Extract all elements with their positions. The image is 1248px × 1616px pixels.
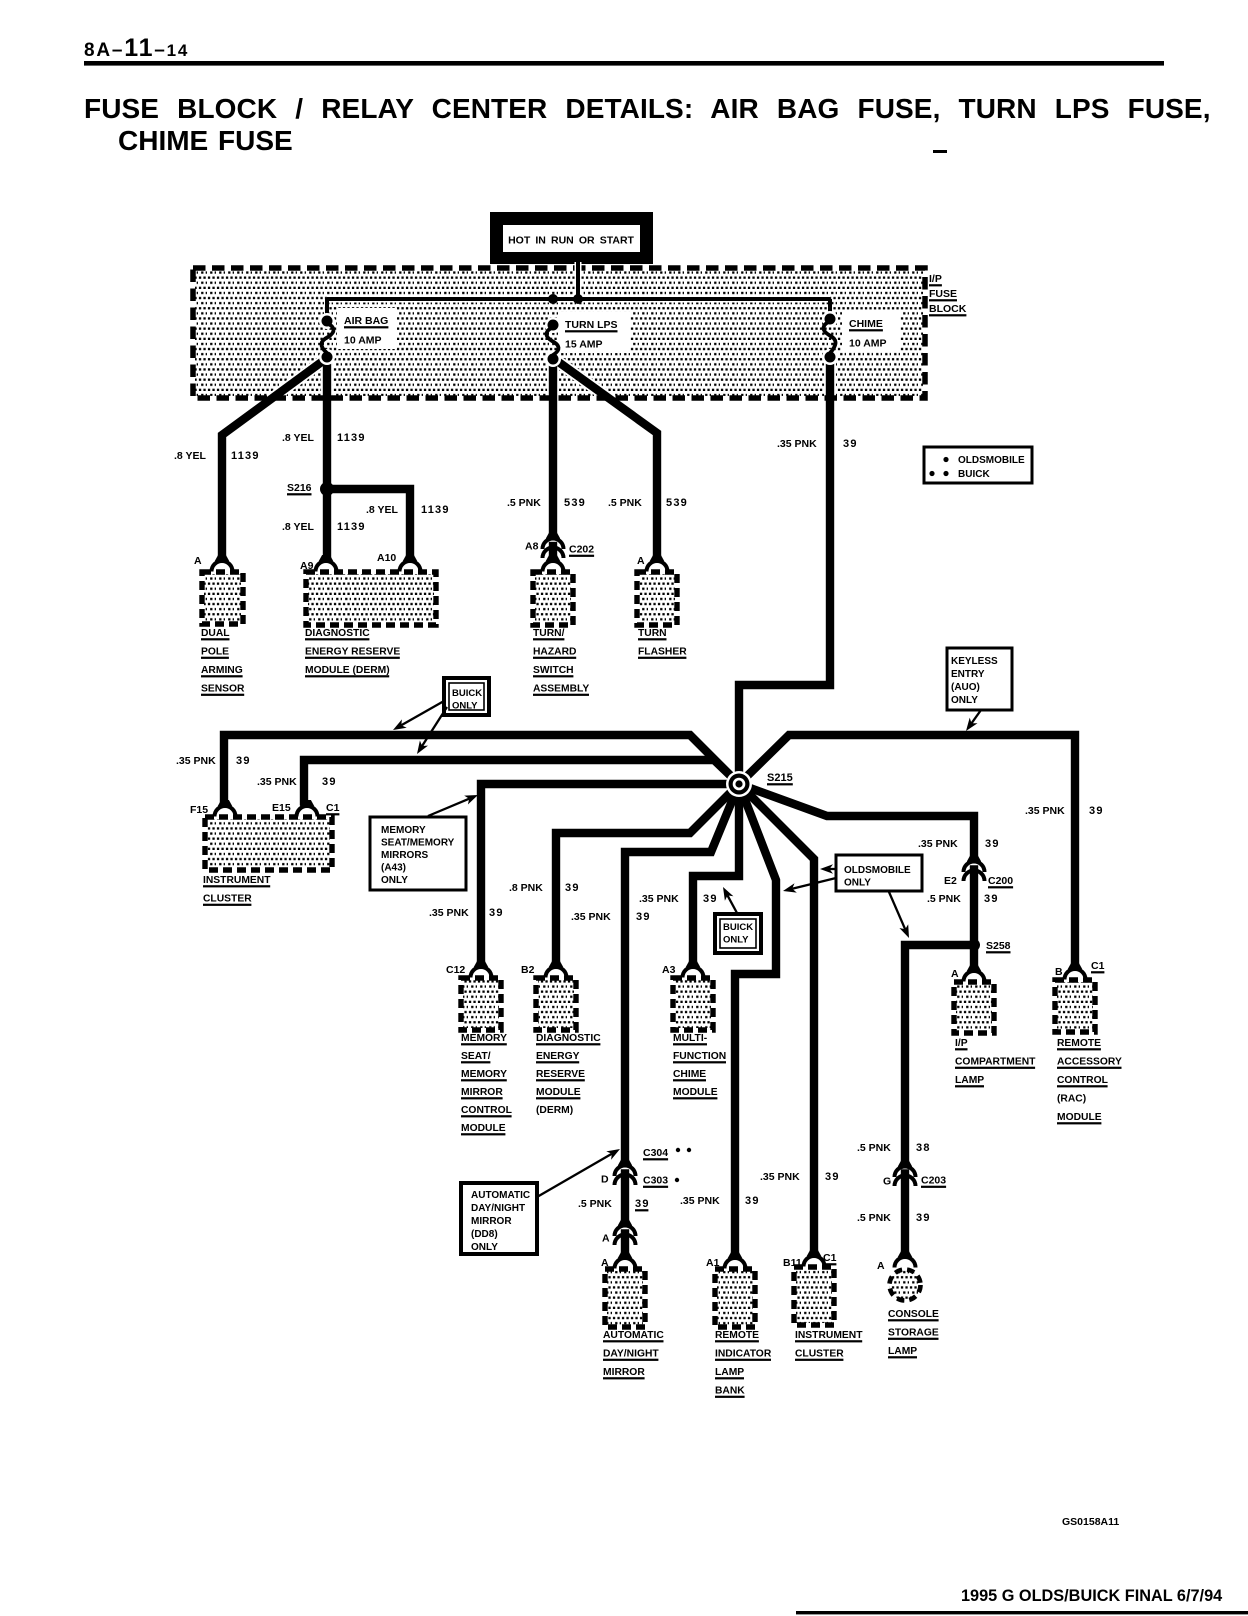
connector A3 — [662, 961, 704, 978]
wire .5 PNK 39 C303 to A connector — [621, 1174, 629, 1221]
svg-text:S215: S215 — [767, 772, 793, 784]
svg-text:.8 PNK: .8 PNK — [509, 882, 543, 894]
wire .8 PNK 39 S215 to DERM B2 — [556, 784, 739, 962]
console storage lamp — [888, 1270, 939, 1359]
svg-text:ENTRY: ENTRY — [951, 669, 985, 680]
svg-text:539: 539 — [564, 497, 586, 509]
svg-text:AUTOMATIC: AUTOMATIC — [471, 1190, 530, 1201]
fuse TURN LPS 15 AMP — [545, 312, 630, 367]
svg-text:AIR BAG: AIR BAG — [344, 315, 388, 327]
svg-text:BANK: BANK — [715, 1386, 745, 1397]
wire .35 PNK 39 S215 to multi-function chime module A3 — [693, 784, 739, 962]
svg-text:MIRRORS: MIRRORS — [381, 850, 429, 861]
svg-text:ONLY: ONLY — [381, 875, 408, 886]
fuse AIR BAG 10 AMP — [319, 308, 397, 365]
wire label .8 YEL 1139 — [282, 432, 366, 444]
svg-text:ONLY: ONLY — [951, 695, 978, 706]
svg-text:C1: C1 — [1091, 960, 1105, 972]
wire label .35 PNK 39 — [257, 776, 337, 788]
svg-text:FUSE BLOCK / RELAY CENTER DETA: FUSE BLOCK / RELAY CENTER DETAILS: AIR B… — [84, 93, 1211, 124]
inline connector D C303 — [601, 1160, 679, 1188]
wire label .8 YEL 1139 — [174, 450, 260, 462]
splice S215 hub — [726, 771, 793, 797]
svg-text:MULTI-: MULTI- — [673, 1033, 708, 1044]
svg-text:39: 39 — [745, 1195, 760, 1207]
svg-text:OLDSMOBILE: OLDSMOBILE — [844, 865, 911, 876]
svg-text:CHIME FUSE: CHIME FUSE — [118, 125, 293, 156]
svg-text:CONTROL: CONTROL — [461, 1105, 512, 1116]
svg-text:SEAT/MEMORY: SEAT/MEMORY — [381, 838, 455, 849]
wire label .35 PNK 39 — [176, 755, 251, 767]
connector A automatic day/night mirror — [601, 1252, 636, 1269]
wire label .35 PNK 39 — [1025, 805, 1104, 817]
svg-text:DAY/NIGHT: DAY/NIGHT — [603, 1349, 659, 1360]
title artifact mark — [933, 150, 947, 153]
connector A9 DERM — [300, 555, 337, 572]
svg-text:I/P: I/P — [929, 273, 942, 285]
svg-text:REMOTE: REMOTE — [715, 1330, 759, 1341]
svg-text:POLE: POLE — [201, 647, 229, 658]
svg-text:FUNCTION: FUNCTION — [673, 1051, 726, 1062]
connector A I/P compartment lamp — [951, 965, 985, 982]
diagnostic energy reserve module DERM — [305, 572, 436, 677]
svg-text:39: 39 — [916, 1212, 931, 1224]
svg-text:39: 39 — [985, 838, 1000, 850]
svg-text:.5 PNK: .5 PNK — [578, 1198, 612, 1210]
svg-text:(RAC): (RAC) — [1057, 1094, 1086, 1105]
junction dot on bus — [548, 294, 558, 304]
svg-text:MEMORY: MEMORY — [461, 1069, 507, 1080]
wire .35 PNK 39 S215 to remote accessory control B C1 — [739, 735, 1075, 964]
connector B2 — [521, 961, 567, 978]
connector A console storage lamp — [877, 1251, 916, 1272]
wire .8 YEL 1139 fuse to S216 and DERM A9 — [323, 358, 331, 556]
svg-text:10 AMP: 10 AMP — [344, 335, 382, 347]
note BUICK ONLY upper — [393, 678, 489, 754]
splice S258 — [968, 939, 1011, 953]
svg-text:TURN: TURN — [638, 628, 667, 639]
svg-text:39: 39 — [489, 907, 504, 919]
connector A dual pole arming sensor — [194, 555, 233, 572]
power source box HOT IN RUN OR START — [490, 212, 653, 264]
svg-text:RESERVE: RESERVE — [536, 1069, 585, 1080]
svg-text:LAMP: LAMP — [955, 1075, 984, 1086]
svg-text:DIAGNOSTIC: DIAGNOSTIC — [536, 1033, 601, 1044]
svg-text:39: 39 — [636, 911, 651, 923]
svg-text:C304: C304 — [643, 1147, 668, 1159]
wire label .35 PNK 39 — [918, 838, 1000, 850]
svg-text:C200: C200 — [988, 875, 1013, 887]
svg-text:CHIME: CHIME — [849, 318, 883, 330]
svg-text:A: A — [877, 1260, 885, 1272]
connector A1 remote indicator lamp bank — [706, 1252, 746, 1269]
svg-text:15 AMP: 15 AMP — [565, 339, 603, 351]
wire .35 PNK 39 S215 to instrument cluster E15 C1 — [304, 760, 739, 801]
note AUTOMATIC DAY/NIGHT MIRROR (DD8) ONLY — [461, 1149, 620, 1254]
diagnostic energy reserve module DERM lower — [536, 978, 601, 1116]
footer — [796, 1587, 1248, 1614]
svg-text:G: G — [883, 1176, 891, 1188]
svg-text:.35 PNK: .35 PNK — [429, 907, 469, 919]
svg-text:DIAGNOSTIC: DIAGNOSTIC — [305, 628, 370, 639]
I/P fuse block dashed border — [193, 268, 925, 398]
svg-text:A3: A3 — [662, 964, 676, 976]
svg-text:(DERM): (DERM) — [536, 1105, 573, 1116]
svg-text:BUICK: BUICK — [452, 688, 482, 699]
svg-text:ENERGY: ENERGY — [536, 1051, 580, 1062]
svg-text:STORAGE: STORAGE — [888, 1328, 939, 1339]
svg-text:39: 39 — [825, 1171, 840, 1183]
svg-text:.8 YEL: .8 YEL — [282, 521, 314, 533]
svg-text:SWITCH: SWITCH — [533, 665, 574, 676]
wire label .8 YEL 1139 — [366, 504, 450, 516]
svg-text:REMOTE: REMOTE — [1057, 1038, 1101, 1049]
connector C304 — [643, 1147, 691, 1160]
wire label .35 PNK 39 — [639, 893, 718, 905]
svg-text:1139: 1139 — [337, 432, 366, 444]
inline connector A automatic mirror — [602, 1220, 636, 1246]
svg-text:39: 39 — [1089, 805, 1104, 817]
svg-text:.35 PNK: .35 PNK — [918, 838, 958, 850]
svg-text:CLUSTER: CLUSTER — [203, 894, 252, 905]
svg-text:ARMING: ARMING — [201, 665, 243, 676]
svg-text:.35 PNK: .35 PNK — [176, 755, 216, 767]
svg-text:A: A — [637, 555, 645, 567]
wire .35 PNK 39 S215 to remote indicator lamp bank A1 — [735, 784, 776, 1253]
svg-text:39: 39 — [635, 1198, 650, 1210]
wire .35 PNK 39 S215 to C303 and automatic mirror — [625, 784, 739, 1160]
legend oldsmobile/buick — [924, 447, 1032, 483]
junction dot at HOT feed — [573, 294, 583, 304]
svg-text:D: D — [601, 1174, 609, 1186]
page header 8A-11-14 — [84, 34, 1164, 66]
svg-text:A10: A10 — [377, 552, 396, 564]
svg-text:.35 PNK: .35 PNK — [639, 893, 679, 905]
inline connector G C203 — [883, 1161, 946, 1188]
svg-text:I/P: I/P — [955, 1038, 968, 1049]
wire bus horizontal — [327, 299, 830, 318]
svg-text:LAMP: LAMP — [888, 1346, 917, 1357]
svg-text:39: 39 — [322, 776, 337, 788]
svg-text:MODULE (DERM): MODULE (DERM) — [305, 665, 390, 676]
svg-text:539: 539 — [666, 497, 688, 509]
svg-text:.5 PNK: .5 PNK — [608, 497, 642, 509]
svg-text:INDICATOR: INDICATOR — [715, 1349, 772, 1360]
svg-text:(AUO): (AUO) — [951, 682, 980, 693]
svg-text:.35 PNK: .35 PNK — [777, 438, 817, 450]
svg-text:MEMORY: MEMORY — [381, 825, 426, 836]
svg-text:.8 YEL: .8 YEL — [174, 450, 206, 462]
svg-text:10 AMP: 10 AMP — [849, 338, 887, 350]
svg-text:FLASHER: FLASHER — [638, 647, 687, 658]
wire .5 PNK 539 to C202 — [549, 358, 557, 533]
svg-text:MODULE: MODULE — [536, 1087, 581, 1098]
svg-text:CHIME: CHIME — [673, 1069, 706, 1080]
svg-text:MODULE: MODULE — [461, 1123, 506, 1134]
wire .5 PNK 39 C203 to console storage lamp — [901, 1174, 909, 1253]
svg-text:.8 YEL: .8 YEL — [282, 432, 314, 444]
svg-text:S216: S216 — [287, 482, 312, 494]
svg-text:39: 39 — [703, 893, 718, 905]
svg-text:.35 PNK: .35 PNK — [1025, 805, 1065, 817]
note MEMORY SEAT/MEMORY MIRRORS (A43) ONLY — [370, 795, 478, 890]
wire bus from HOT IN RUN OR START — [575, 262, 582, 299]
svg-text:.5 PNK: .5 PNK — [927, 893, 961, 905]
svg-text:LAMP: LAMP — [715, 1367, 744, 1378]
svg-text:INSTRUMENT: INSTRUMENT — [795, 1330, 863, 1341]
svg-text:MIRROR: MIRROR — [461, 1087, 503, 1098]
svg-text:BLOCK: BLOCK — [929, 303, 967, 315]
svg-text:.5 PNK: .5 PNK — [857, 1212, 891, 1224]
turn/hazard switch assembly — [533, 572, 589, 696]
wire .35 PNK 39 S215 to instrument cluster F15 — [224, 735, 739, 801]
svg-text:B: B — [1055, 966, 1063, 978]
remote indicator lamp bank — [715, 1269, 772, 1398]
connector A10 DERM — [377, 552, 421, 572]
connector B11 C1 instrument cluster — [783, 1250, 837, 1269]
svg-text:1139: 1139 — [231, 450, 260, 462]
svg-text:A: A — [194, 555, 202, 567]
svg-text:A: A — [951, 968, 959, 980]
svg-text:ENERGY RESERVE: ENERGY RESERVE — [305, 647, 400, 658]
wire .35 PNK 39 S215 to memory seat module C12 — [481, 784, 739, 962]
svg-text:BUICK: BUICK — [723, 922, 753, 933]
wire .35 PNK 39 chime fuse to S215 — [739, 357, 830, 780]
connector A turn flasher — [637, 555, 668, 572]
wire A connector to automatic day/night mirror — [621, 1234, 629, 1254]
svg-text:(A43): (A43) — [381, 863, 406, 874]
svg-text:1139: 1139 — [337, 521, 366, 533]
svg-text:38: 38 — [916, 1142, 931, 1154]
svg-text:TURN/: TURN/ — [533, 628, 565, 639]
svg-text:TURN LPS: TURN LPS — [565, 319, 618, 331]
svg-text:.5 PNK: .5 PNK — [507, 497, 541, 509]
wire .8 YEL 1139 S216 to DERM A10 — [327, 489, 410, 556]
title — [84, 93, 1211, 156]
svg-text:C303: C303 — [643, 1175, 668, 1187]
svg-text:C202: C202 — [569, 544, 594, 556]
svg-text:39: 39 — [984, 893, 999, 905]
automatic day/night mirror — [603, 1269, 664, 1379]
svg-text:SENSOR: SENSOR — [201, 684, 245, 695]
turn flasher — [637, 572, 687, 659]
wire label .5 PNK 539 — [507, 497, 586, 509]
wire .5 PNK 539 C202 to turn/hazard switch — [549, 546, 557, 556]
svg-text:CLUSTER: CLUSTER — [795, 1349, 844, 1360]
svg-text:FUSE: FUSE — [929, 288, 957, 300]
figure number GS0158A11 — [1062, 1516, 1119, 1528]
wire label .5 PNK 39 — [927, 893, 999, 905]
svg-text:ACCESSORY: ACCESSORY — [1057, 1057, 1122, 1068]
instrument cluster lower — [794, 1267, 863, 1361]
connector F15 instrument cluster — [190, 800, 236, 817]
svg-text:ONLY: ONLY — [723, 935, 749, 946]
svg-text:OLDSMOBILE: OLDSMOBILE — [958, 455, 1025, 466]
wire label .5 PNK 39 — [857, 1212, 931, 1224]
inline connector E2 C200 — [944, 856, 1013, 889]
svg-text:B2: B2 — [521, 964, 535, 976]
svg-text:BUICK: BUICK — [958, 469, 990, 480]
svg-text:C1: C1 — [326, 802, 340, 814]
wire label .35 PNK 39 — [760, 1171, 840, 1183]
instrument cluster upper — [203, 817, 332, 906]
wire label .8 PNK 39 — [509, 882, 580, 894]
svg-text:HAZARD: HAZARD — [533, 647, 576, 658]
svg-text:.35 PNK: .35 PNK — [760, 1171, 800, 1183]
I/P fuse block label — [929, 273, 967, 316]
svg-text:HOT IN RUN OR START: HOT IN RUN OR START — [508, 235, 634, 247]
wire label .5 PNK 39 — [578, 1198, 650, 1211]
svg-text:F15: F15 — [190, 804, 208, 816]
svg-text:S258: S258 — [986, 940, 1011, 952]
wire label .5 PNK 38 — [857, 1142, 931, 1154]
memory seat/memory mirror control module — [461, 978, 512, 1135]
svg-text:E15: E15 — [272, 802, 291, 814]
note BUICK ONLY lower — [715, 887, 761, 953]
svg-text:.35 PNK: .35 PNK — [571, 911, 611, 923]
wire label .8 YEL 1139 — [282, 521, 366, 533]
svg-text:C1: C1 — [823, 1252, 837, 1264]
svg-text:C12: C12 — [446, 964, 465, 976]
svg-text:.35 PNK: .35 PNK — [680, 1195, 720, 1207]
connector turn/hazard switch assembly — [543, 555, 564, 572]
wire .35 PNK 39 S215 to instrument cluster B11 — [739, 784, 814, 1251]
wire label .5 PNK 539 — [608, 497, 688, 509]
svg-text:.35 PNK: .35 PNK — [257, 776, 297, 788]
remote accessory control RAC module — [1055, 980, 1122, 1124]
svg-text:1995 G OLDS/BUICK FINAL 6/7/9: 1995 G OLDS/BUICK FINAL 6/7/94 — [961, 1587, 1222, 1605]
svg-text:CONSOLE: CONSOLE — [888, 1309, 939, 1320]
svg-text:GS0158A11: GS0158A11 — [1062, 1516, 1119, 1528]
note OLDSMOBILE ONLY — [783, 855, 922, 938]
svg-text:MEMORY: MEMORY — [461, 1033, 507, 1044]
svg-text:MIRROR: MIRROR — [603, 1367, 645, 1378]
wire .35 PNK 39 S215 to E2 C200 — [739, 784, 974, 856]
svg-text:COMPARTMENT: COMPARTMENT — [955, 1057, 1036, 1068]
svg-text:ONLY: ONLY — [844, 878, 871, 889]
svg-text:.5 PNK: .5 PNK — [857, 1142, 891, 1154]
connector B C1 remote accessory control — [1055, 960, 1105, 980]
wire label .35 PNK 39 — [777, 438, 858, 450]
wire .5 PNK 39 C200 to S258 and I/P compartment lamp — [970, 870, 978, 967]
I/P compartment lamp — [954, 982, 1036, 1087]
note KEYLESS ENTRY (AUO) ONLY — [947, 648, 1012, 731]
wire label .35 PNK 39 — [429, 907, 504, 919]
wire .5 PNK S258 to C203 console storage lamp — [905, 945, 974, 1160]
wire label .35 PNK 39 — [680, 1195, 760, 1207]
svg-text:A: A — [602, 1233, 610, 1245]
fuse CHIME 10 AMP — [822, 311, 900, 365]
connector E15 C1 instrument cluster — [272, 800, 340, 817]
inline connector A8 C202 — [525, 533, 594, 559]
wire label .35 PNK 39 — [571, 911, 651, 923]
svg-text:A8: A8 — [525, 541, 539, 553]
svg-text:CONTROL: CONTROL — [1057, 1075, 1108, 1086]
dual pole arming sensor — [201, 572, 245, 696]
svg-text:AUTOMATIC: AUTOMATIC — [603, 1330, 664, 1341]
svg-text:(DD8): (DD8) — [471, 1229, 498, 1240]
svg-text:39: 39 — [236, 755, 251, 767]
svg-text:E2: E2 — [944, 875, 957, 887]
multi-function chime module — [673, 978, 726, 1099]
svg-text:1139: 1139 — [421, 504, 450, 516]
svg-text:DAY/NIGHT: DAY/NIGHT — [471, 1203, 525, 1214]
svg-text:MODULE: MODULE — [1057, 1112, 1102, 1123]
wire .8 YEL 1139 to dual pole arming sensor — [222, 358, 327, 556]
splice S216 — [287, 482, 334, 496]
svg-text:39: 39 — [843, 438, 858, 450]
svg-text:.8 YEL: .8 YEL — [366, 504, 398, 516]
svg-text:ONLY: ONLY — [452, 701, 478, 712]
I/P fuse block box — [195, 270, 923, 396]
svg-text:DUAL: DUAL — [201, 628, 230, 639]
svg-text:ONLY: ONLY — [471, 1242, 498, 1253]
connector C12 — [446, 961, 492, 978]
svg-text:SEAT/: SEAT/ — [461, 1051, 491, 1062]
svg-text:MIRROR: MIRROR — [471, 1216, 512, 1227]
svg-text:C203: C203 — [921, 1175, 946, 1187]
svg-text:39: 39 — [565, 882, 580, 894]
svg-text:MODULE: MODULE — [673, 1087, 718, 1098]
svg-text:ASSEMBLY: ASSEMBLY — [533, 684, 589, 695]
svg-text:INSTRUMENT: INSTRUMENT — [203, 875, 271, 886]
wire .5 PNK 539 to turn flasher — [553, 358, 657, 556]
svg-text:KEYLESS: KEYLESS — [951, 656, 998, 667]
